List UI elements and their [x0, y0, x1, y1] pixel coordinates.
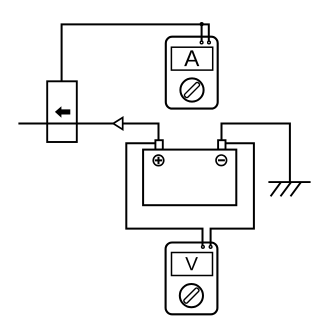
junction dot [200, 22, 204, 26]
open arrowhead on wire [113, 118, 123, 130]
battery post negative [218, 140, 225, 149]
wire: voltmeter loop right [211, 143, 254, 246]
ammeter display [171, 47, 212, 70]
wire: box D1 top to ammeter [62, 24, 209, 81]
ammeter terminal right [208, 41, 211, 44]
battery plus symbol [153, 155, 164, 166]
voltmeter display [172, 253, 213, 276]
wire: main horizontal to battery plus post [18, 124, 158, 142]
ammeter label A [184, 50, 199, 66]
voltmeter dial [180, 284, 203, 307]
ground hatch 2 [281, 182, 292, 196]
wire: battery minus to ground [222, 124, 290, 183]
battery BT1 body [143, 150, 236, 206]
battery minus symbol [216, 155, 227, 166]
wire: voltmeter loop left [126, 143, 202, 246]
ground bar [268, 181, 310, 183]
ammeter dial [180, 78, 203, 101]
voltmeter terminal right [209, 246, 212, 249]
solid arrow in box [55, 106, 70, 118]
voltmeter V1 body [166, 243, 218, 315]
component box D1 [47, 81, 77, 142]
ground hatch 1 [271, 182, 281, 196]
voltmeter terminal left [202, 246, 205, 249]
voltmeter knob slot [183, 287, 199, 303]
ground hatch 3 [291, 182, 302, 196]
voltmeter label V [185, 257, 198, 270]
battery post positive [155, 140, 162, 149]
ammeter terminal left [200, 41, 203, 44]
ammeter knob slot [184, 82, 200, 98]
wire: junction to ammeter left terminal [201, 24, 203, 41]
ammeter A1 body [166, 37, 218, 109]
